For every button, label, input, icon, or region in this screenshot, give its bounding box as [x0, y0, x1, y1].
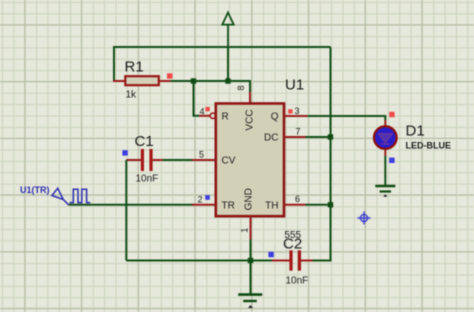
svg-text:10nF: 10nF — [286, 276, 309, 287]
svg-text:7: 7 — [296, 127, 301, 137]
svg-text:CV: CV — [222, 156, 236, 167]
ground — [375, 186, 395, 197]
wire top horizontal — [114, 47, 331, 81]
svg-text:D1: D1 — [406, 123, 425, 140]
junction node — [248, 258, 253, 263]
svg-text:5: 5 — [199, 150, 204, 160]
junction node — [225, 78, 230, 83]
U1 pin name labels — [222, 109, 279, 211]
wire LED to ground — [384, 156, 386, 185]
red marker near pin 4 — [205, 107, 209, 111]
svg-text:4: 4 — [199, 107, 204, 117]
svg-text:10nF: 10nF — [136, 174, 159, 185]
wire bottom horizontal — [126, 260, 272, 262]
wire VCC vertical — [227, 47, 229, 81]
svg-text:C2: C2 — [283, 235, 302, 252]
pulse generator U1(TR) — [52, 188, 90, 205]
wire Q to LED — [308, 116, 386, 120]
svg-text:1k: 1k — [126, 90, 138, 101]
LED D1 — [374, 120, 397, 156]
wire pin 6 to vertical — [306, 204, 331, 206]
wire C1 left vertical — [125, 160, 127, 261]
origin marker — [358, 212, 371, 225]
blue marker near C2 — [268, 252, 273, 257]
svg-text:6: 6 — [295, 194, 300, 204]
red marker near pin 3 — [288, 109, 292, 113]
red marker near R1 — [167, 73, 172, 78]
pin 1 stub GND — [250, 216, 252, 240]
svg-text:8: 8 — [236, 85, 246, 90]
pin 5 stub — [192, 159, 215, 161]
junction node — [328, 134, 333, 139]
svg-text:GND: GND — [244, 188, 255, 210]
wire right vertical — [313, 47, 331, 261]
IC U1 555 timer body — [216, 104, 284, 217]
junction node — [328, 202, 333, 207]
wire TR — [69, 204, 194, 206]
wire to pin 8 — [228, 81, 250, 92]
wire — [194, 80, 229, 82]
svg-text:3: 3 — [295, 106, 300, 116]
svg-text:1: 1 — [240, 228, 250, 233]
blue marker near pin 2 — [205, 195, 210, 200]
svg-text:TH: TH — [265, 201, 278, 212]
svg-text:C1: C1 — [135, 133, 154, 150]
svg-text:LED-BLUE: LED-BLUE — [406, 141, 452, 151]
ground — [238, 261, 262, 309]
capacitor C1 — [126, 149, 192, 171]
power terminal VCC — [222, 13, 233, 48]
svg-text:R1: R1 — [125, 58, 144, 75]
svg-text:DC: DC — [264, 133, 278, 144]
svg-text:U1: U1 — [285, 77, 304, 94]
svg-text:Q: Q — [271, 112, 279, 123]
pin 2 stub — [192, 204, 215, 206]
wire pin 1 — [250, 240, 252, 261]
pin 8 stub — [249, 92, 251, 104]
svg-text:VCC: VCC — [245, 109, 256, 130]
pin 7 stub — [284, 136, 306, 138]
svg-text:2: 2 — [197, 195, 202, 205]
svg-text:U1(TR): U1(TR) — [20, 185, 50, 195]
pin 3 stub — [284, 115, 308, 117]
wire pin 7 to vertical — [306, 136, 331, 138]
blue marker near C1 — [122, 150, 127, 155]
resistor R1 — [113, 76, 194, 85]
wire pin 4 reset — [194, 81, 216, 119]
svg-text:TR: TR — [222, 201, 235, 212]
junction node — [191, 78, 196, 83]
red marker near D1 — [389, 112, 394, 117]
blue marker near D1 — [389, 158, 394, 163]
svg-text:R: R — [222, 112, 229, 123]
capacitor C2 — [272, 250, 313, 270]
pin 6 stub — [284, 204, 306, 206]
